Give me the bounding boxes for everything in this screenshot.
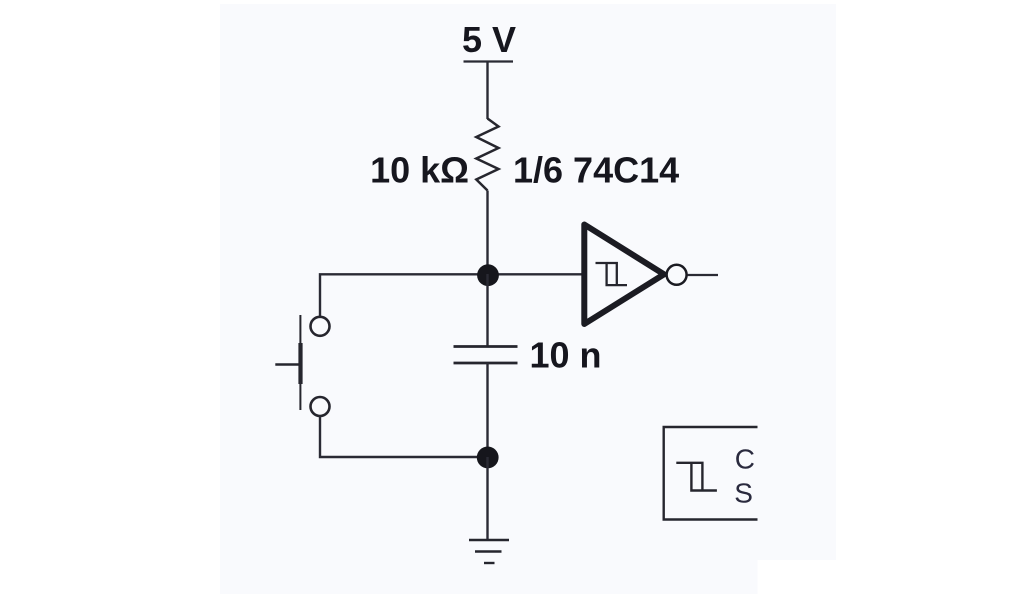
legend box (clipped at right) (664, 427, 758, 520)
wire node A to switch top (320, 274, 488, 316)
legend hysteresis glyph (676, 463, 702, 491)
ground (469, 539, 509, 541)
wire capacitor C1 to node B (486, 363, 488, 457)
capacitor C1 bottom plate (454, 362, 518, 365)
U1 output inversion bubble (667, 265, 687, 285)
switch S1 actuator bar (299, 315, 301, 410)
wire switch bottom to node B (320, 416, 488, 457)
wire from resistor to node A (486, 191, 488, 275)
junction node B (477, 447, 499, 469)
switch S1 top contact (311, 317, 330, 336)
power supply rail bar (464, 60, 514, 62)
op-amp U1 schmitt inverter triangle (584, 225, 664, 325)
svg-text:10 kΩ: 10 kΩ (370, 150, 469, 191)
svg-text:5 V: 5 V (462, 19, 516, 60)
white mask bottom right (758, 560, 1019, 594)
resistor R1 zigzag (476, 119, 498, 191)
U1 hysteresis glyph (596, 263, 617, 285)
wire node A to capacitor C1 (486, 274, 488, 347)
wire from 5V rail to resistor R1 (486, 62, 488, 120)
svg-text:1/6 74C14: 1/6 74C14 (513, 150, 679, 191)
wire node A to inverter input (488, 273, 585, 275)
capacitor C1 top plate (454, 345, 518, 348)
svg-text:S: S (734, 478, 753, 509)
switch S1 actuator stem (275, 363, 300, 365)
switch S1 bottom contact (311, 397, 330, 416)
junction node A (477, 264, 499, 286)
svg-text:10 n: 10 n (530, 335, 602, 376)
wire node B to ground (486, 457, 488, 540)
svg-text:C: C (735, 444, 755, 475)
wire U1 output (688, 274, 719, 276)
